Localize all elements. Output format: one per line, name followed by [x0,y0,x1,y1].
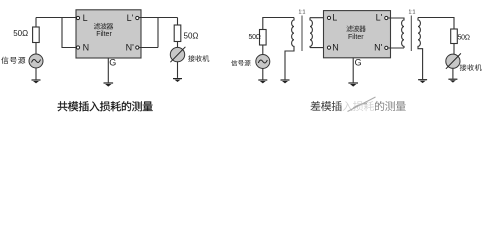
label signal source left [1,57,25,64]
svg-text:N': N' [374,43,382,53]
wire G to ground left [107,58,109,82]
svg-text:50Ω: 50Ω [249,34,261,41]
wire T1 to box L right [310,17,328,19]
ground under T2 secondary [418,79,427,81]
wire box L' to T2 [388,17,405,19]
wire source to ground right [262,69,264,80]
transformer T2 primary winding [402,18,404,49]
transformer T2 core [410,16,412,52]
ground under source left [32,79,41,81]
wire T1 to box N right [310,47,328,49]
ground under receiver right [448,78,457,80]
svg-text:Filter: Filter [96,31,112,38]
source signal generator left [29,54,43,68]
label signal source right [231,60,250,66]
wire box N' to T2 [388,47,405,49]
svg-text:L': L' [127,13,134,23]
caption right dark part [310,101,341,111]
svg-text:50Ω: 50Ω [458,34,470,41]
label filter chinese right [346,25,365,32]
caption right faint part [343,101,374,111]
wire source to resistor right [262,45,264,55]
source signal generator right [256,55,270,69]
wire receiver to ground right [452,68,454,78]
svg-text:N: N [332,43,339,53]
label receiver left [188,55,209,62]
transformer T2 secondary winding [418,18,423,80]
svg-text:N': N' [126,43,134,53]
wire receiver to ground left [177,62,179,78]
svg-text:1:1: 1:1 [299,9,306,15]
transformer T1 core [301,16,303,52]
wire resistor to receiver left [177,42,179,48]
wire G to ground right [352,58,354,83]
svg-text:L': L' [376,13,383,23]
terminal N right box [327,46,330,49]
resistor 50ohm source right [260,30,267,46]
svg-text:1:1: 1:1 [409,9,416,15]
svg-text:N: N [83,43,90,53]
terminal L right box [327,16,330,19]
resistor 50ohm load right [451,29,458,44]
wire top rail right of box left [139,17,178,19]
wire T2 to load branch right [418,18,454,30]
resistor 50ohm source left [33,27,40,43]
wire source branch upper left [35,18,37,28]
wire source branch to rail right [263,18,294,30]
terminal N' left box [136,46,139,49]
ground under G left [104,82,114,84]
ground under receiver left [173,78,182,80]
filter box right [324,11,391,58]
svg-text:G: G [355,58,362,68]
wire resistor to source left [35,43,37,55]
wire top rail left [36,17,77,19]
ground under source right [258,79,267,81]
resistor 50ohm load left [174,25,181,42]
svg-text:L: L [332,13,337,23]
watermark slash over caption right [348,97,376,112]
wire source to ground left [35,68,37,79]
caption left [58,101,153,111]
filter box left [76,10,141,58]
caption right medium part [375,101,406,111]
wire tie L-N left [62,18,77,48]
terminal N' right box [385,46,388,49]
wire load branch upper left circuit [177,18,179,26]
ground under G right [348,82,358,84]
svg-text:50Ω: 50Ω [184,32,199,41]
terminal L' right box [385,16,388,19]
transformer T1 secondary winding [310,18,312,48]
terminal N left box [76,46,79,49]
svg-text:L: L [83,13,88,23]
svg-text:50Ω: 50Ω [13,29,28,38]
terminal L left box [76,16,79,19]
terminal L' left box [136,16,139,19]
label filter chinese left [94,23,113,30]
transformer T1 primary winding [285,18,294,80]
svg-text:Filter: Filter [348,34,364,41]
svg-text:G: G [109,58,116,68]
ground under T1 primary [281,79,290,81]
receiver right [446,54,460,68]
label receiver right [460,64,482,71]
wire resistor to receiver right [453,44,455,55]
receiver left [170,47,184,61]
wire tie L'-N' left circuit [139,18,158,48]
